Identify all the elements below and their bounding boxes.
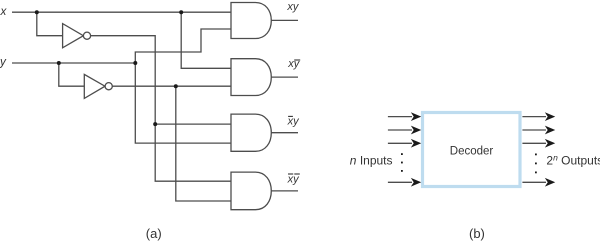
overbar on y of label x-bar y-bar [294, 173, 300, 175]
wire AND gate 3 output [271, 132, 298, 134]
junction dot on y line at branch to inverter 2 [57, 61, 61, 65]
svg-text:xy: xy [286, 1, 300, 13]
junction dot on x-bar column at gate 3 top input [153, 122, 157, 126]
svg-text:2n Outputs: 2n Outputs [546, 153, 600, 168]
arrowhead input 2 [412, 127, 420, 134]
inverter (NOT gate) 2 [84, 74, 105, 98]
svg-text:(a): (a) [146, 226, 162, 241]
arrowhead input 4 [412, 179, 420, 186]
overbar on x of label x-bar y [288, 115, 293, 117]
junction dot on x line at x branch to inverter 1 [35, 10, 39, 14]
wire AND gate 2 output [271, 76, 298, 78]
svg-text:xy: xy [287, 115, 301, 127]
wire y branch down to AND gate 3 bottom input [135, 63, 231, 143]
inverter 2 bubble [105, 83, 112, 90]
output arrow 3 [522, 142, 546, 144]
inverter (NOT gate) 1 [63, 24, 84, 48]
overbar on y of label x y-bar [294, 59, 300, 61]
vertical ellipsis left [401, 153, 403, 155]
AND gate 4 (x-bar y-bar) [231, 172, 271, 210]
junction dot on x line at branch to gate 2 [179, 10, 183, 14]
input arrow 3 [388, 142, 412, 144]
wire x-bar branch to AND gate 3 top input [155, 123, 231, 125]
svg-text:x: x [0, 5, 8, 18]
svg-text:n Inputs: n Inputs [350, 154, 393, 168]
arrowhead input 1 [412, 113, 420, 120]
input arrow 4 [388, 181, 412, 183]
svg-text:y: y [0, 56, 7, 69]
wire x branch down to inverter 1 [37, 12, 63, 36]
decoder block box [423, 113, 521, 187]
overbar on x of label x-bar y-bar [288, 173, 293, 175]
svg-text:xy: xy [287, 173, 301, 185]
svg-text:(b): (b) [469, 226, 485, 241]
wire x branch down to AND gate 2 top input [181, 12, 231, 68]
arrowhead output 3 [546, 140, 554, 147]
output arrow 2 [522, 129, 546, 131]
junction dot on y line at gate1/gate3 branch [133, 61, 137, 65]
wire y-bar branch down to AND gate 4 bottom input [176, 86, 231, 201]
wire inverter1 output x-bar to column [91, 36, 231, 182]
wire x input line [12, 11, 231, 13]
wire AND gate 1 output [271, 19, 298, 21]
input arrow 1 [388, 116, 412, 118]
wire inverter2 output y-bar to AND gate 2 bottom input [112, 85, 231, 87]
wire y branch down to inverter 2 [59, 63, 85, 86]
arrowhead input 3 [412, 140, 420, 147]
AND gate 2 (x y-bar) [231, 59, 271, 96]
arrowhead output 1 [546, 113, 554, 120]
wire y input line [12, 62, 135, 64]
wire y branch up to AND gate 1 bottom input [135, 29, 231, 63]
junction dot on y-bar line at branch to gate 4 [174, 84, 178, 88]
input arrow 2 [388, 129, 412, 131]
output arrow 4 [522, 181, 546, 183]
inverter 1 bubble [83, 32, 90, 39]
vertical ellipsis right [535, 154, 537, 156]
arrowhead output 4 [546, 179, 554, 186]
AND gate 1 (xy) [231, 3, 271, 39]
output arrow 1 [522, 116, 546, 118]
AND gate 3 (x-bar y) [231, 114, 271, 151]
svg-text:Decoder: Decoder [450, 146, 494, 158]
wire AND gate 4 output [271, 190, 298, 192]
arrowhead output 2 [546, 127, 554, 134]
